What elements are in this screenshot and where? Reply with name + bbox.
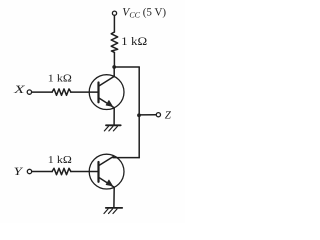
- wire node A to right bus corner: [114, 66, 139, 68]
- wire Q1 emitter to ground: [113, 108, 115, 125]
- wire right vertical bus: [138, 67, 140, 158]
- wire VCC to R1 top: [113, 16, 115, 33]
- svg-text:Z: Z: [165, 109, 172, 121]
- wire Y terminal to R3: [32, 171, 52, 173]
- node A (junction dot, collector bus): [112, 65, 116, 69]
- svg-text:1 kΩ: 1 kΩ: [121, 36, 147, 48]
- transistor Q2 (NPN): [89, 154, 124, 189]
- transistor Q1 (NPN): [89, 75, 124, 110]
- terminal VCC (open circle): [112, 11, 116, 15]
- wire Q1 collector to node A: [113, 67, 115, 76]
- svg-text:X: X: [13, 84, 27, 96]
- resistor R3 1 kOhm (input Y): [52, 168, 71, 174]
- resistor R1 1 kOhm (vertical pull-up): [111, 32, 118, 52]
- wire bus corner to Q2 collector: [113, 157, 139, 159]
- wire R1 bottom to node A: [113, 52, 115, 67]
- svg-text:VCC (5 V): VCC (5 V): [122, 7, 166, 20]
- ground (Q2 emitter): [104, 208, 122, 214]
- resistor R2 1 kOhm (input X): [52, 89, 71, 95]
- terminal Z (open circle): [156, 113, 160, 117]
- wire Q2 emitter to ground: [113, 187, 115, 207]
- svg-text:1 kΩ: 1 kΩ: [48, 155, 72, 166]
- ground (Q1 emitter): [104, 125, 120, 131]
- wire R2 to Q1 base: [71, 91, 99, 93]
- svg-text:Y: Y: [14, 166, 25, 178]
- wire X terminal to R2: [32, 91, 53, 93]
- node Z junction dot: [137, 113, 141, 117]
- terminal Y (open circle): [27, 169, 31, 173]
- terminal X (open circle): [27, 90, 31, 94]
- svg-text:1 kΩ: 1 kΩ: [48, 74, 72, 85]
- wire node Z to terminal Z: [139, 114, 156, 116]
- wire R3 to Q2 base: [71, 171, 99, 173]
